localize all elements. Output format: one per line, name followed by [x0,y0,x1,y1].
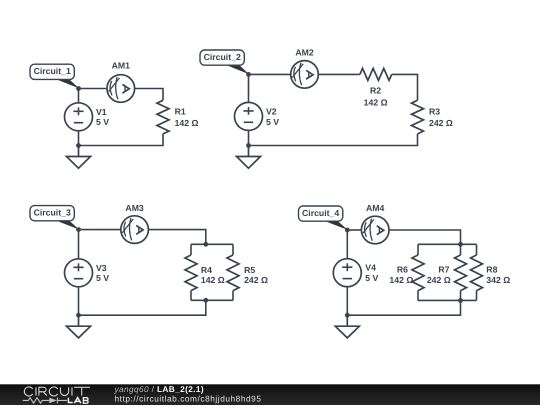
ammeter AM1 [107,75,135,103]
svg-text:V3: V3 [96,263,107,273]
svg-text:242 Ω: 242 Ω [427,275,451,285]
svg-text:342 Ω: 342 Ω [486,275,510,285]
voltage source V4 [333,230,361,315]
svg-text:Circuit_3: Circuit_3 [34,208,71,218]
node label Circuit_4 [299,206,348,230]
ground C1 [67,146,91,169]
wire node2 to AM2 [249,73,291,75]
resistor R5 [227,255,239,291]
voltage source V2 [235,74,263,145]
top bar parallel C3 [191,243,233,245]
junction dot bottom C1 [76,143,81,148]
wire stub R8 bottom [476,291,478,301]
ground C4 [335,315,359,338]
wire AM4 to parallel top [389,230,461,244]
resistor R1 [157,100,169,134]
wire AM3 to parallel top [149,230,206,245]
logo LAB letters [68,398,88,404]
node label Circuit_1 [30,64,79,88]
junction dot bottom C3 [76,313,81,318]
logo CIRCUIT outline letters [24,387,90,396]
wire stub R8 top [476,244,478,255]
wire node1 to AM1 [79,88,108,90]
svg-text:R8: R8 [486,264,497,274]
svg-text:R3: R3 [429,107,440,117]
wire parallel bottom to rail C3 [79,300,206,315]
svg-text:AM4: AM4 [366,203,385,213]
svg-text:Circuit_4: Circuit_4 [302,208,339,218]
svg-text:Circuit_1: Circuit_1 [34,66,71,76]
svg-text:AM2: AM2 [295,48,314,58]
voltage source V3 [65,230,93,316]
ammeter AM4 [361,216,389,244]
wire node4 to AM4 [347,229,361,231]
svg-text:V1: V1 [96,107,107,117]
wire stub R5 top [232,244,234,255]
node junction dot top C4 [345,228,350,233]
wire stub R4 top [190,244,192,255]
resistor R2 [360,68,392,80]
svg-text:Circuit_2: Circuit_2 [204,52,241,62]
svg-text:5 V: 5 V [96,273,109,283]
bottom bar parallel C3 [191,299,233,301]
resistor R3 [412,100,424,134]
svg-text:142 Ω: 142 Ω [175,118,199,128]
svg-text:http://circuitlab.com/c8hjjduh: http://circuitlab.com/c8hjjduh8hd95 [115,393,262,403]
resistor R4 [185,255,197,291]
junction dot parallel bottom C4 [458,298,463,303]
junction dot bottom C4 [345,313,350,318]
wire stub R6 top [417,244,419,255]
wire stub R6 bottom [417,291,419,301]
node junction dot top C2 [246,72,251,77]
svg-text:R1: R1 [175,107,186,117]
svg-text:5 V: 5 V [365,273,378,283]
wire stub R7 top [460,244,462,255]
wire R3 bottom to rail [249,134,418,146]
wire AM2 to R2 [318,73,360,75]
resistor R6 [412,255,424,291]
svg-text:5 V: 5 V [266,117,279,127]
logo resistor-diode doodle [23,398,67,404]
svg-text:AM1: AM1 [112,60,131,70]
svg-text:142 Ω: 142 Ω [364,97,388,107]
wire node3 to AM3 [79,229,121,231]
bottom bar parallel C4 [418,299,477,301]
svg-text:142 Ω: 142 Ω [201,275,225,285]
ground C2 [237,146,261,169]
ammeter AM2 [291,61,319,89]
voltage source V1 [65,89,93,146]
wire stub R5 bottom [232,291,234,301]
svg-text:R5: R5 [244,265,255,275]
svg-text:R7: R7 [438,264,449,274]
node junction dot top C3 [76,227,81,232]
svg-text:V4: V4 [365,263,376,273]
wire parallel bottom to rail C4 [347,300,460,315]
svg-text:R6: R6 [397,264,408,274]
junction dot bottom C2 [246,143,251,148]
node A junction dot top C1 [76,86,81,91]
wire stub R4 bottom [190,291,192,301]
svg-text:V2: V2 [266,106,277,116]
svg-text:142 Ω: 142 Ω [389,275,413,285]
svg-text:242 Ω: 242 Ω [429,118,453,128]
node label Circuit_2 [200,50,249,74]
top bar parallel C4 [418,243,477,245]
svg-text:AM3: AM3 [125,203,144,213]
junction dot parallel bottom C3 [203,298,208,303]
svg-text:R4: R4 [201,265,212,275]
svg-text:R2: R2 [370,86,381,96]
svg-text:242 Ω: 242 Ω [244,275,268,285]
resistor R7 [455,255,467,291]
wire R2 to R3 top [392,74,418,100]
svg-text:5 V: 5 V [96,117,109,127]
junction dot parallel top C3 [203,242,208,247]
wire stub R7 bottom [460,291,462,301]
ground C3 [67,315,91,338]
wire R1 bottom to rail [79,134,164,146]
resistor R8 [471,255,483,291]
junction dot parallel top C4 [458,242,463,247]
node label Circuit_3 [30,206,79,230]
ammeter AM3 [121,216,149,244]
wire AM1 to R1 top [135,89,163,101]
